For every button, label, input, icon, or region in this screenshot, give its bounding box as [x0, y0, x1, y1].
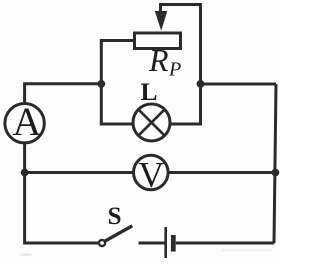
svg-text:V: V	[138, 155, 164, 195]
rheostat wiper arrow	[155, 11, 168, 31]
svg-text:S: S	[108, 203, 122, 230]
faint scan streak	[222, 250, 272, 252]
switch S	[99, 226, 132, 246]
resistor RP body	[135, 33, 181, 49]
junction node B2	[197, 80, 205, 88]
ammeter A	[5, 99, 44, 144]
faint scan smudge	[20, 253, 33, 256]
wire: voltmeter left lead	[25, 171, 133, 174]
wire: rheostat left lead down left-upper vertical to lamp left lead	[101, 41, 133, 125]
wire: wiper to top-right corner down right-upper bus to lamp right lead	[161, 5, 201, 125]
wire: far right vertical bus	[274, 84, 276, 243]
wire: ammeter bottom to left bus down to bottom-left corner and switch	[25, 144, 99, 244]
svg-text:L: L	[141, 77, 158, 106]
svg-text:A: A	[13, 99, 42, 144]
wire: ammeter top lead up and right to node B1	[25, 84, 102, 103]
lamp L	[133, 104, 170, 141]
junction node B1	[97, 80, 105, 88]
wire: switch to battery positive	[139, 242, 165, 245]
voltmeter V	[134, 155, 169, 195]
wire: bottom-right segment battery to right bus	[176, 242, 274, 245]
wire: branch from node B2 right to far-right bus	[201, 83, 277, 86]
wire: voltmeter right lead	[169, 171, 276, 174]
junction node C	[21, 169, 29, 177]
battery cell: long thin positive plate	[164, 227, 167, 258]
battery cell: short thick negative plate	[171, 235, 176, 252]
junction node D	[272, 169, 280, 177]
